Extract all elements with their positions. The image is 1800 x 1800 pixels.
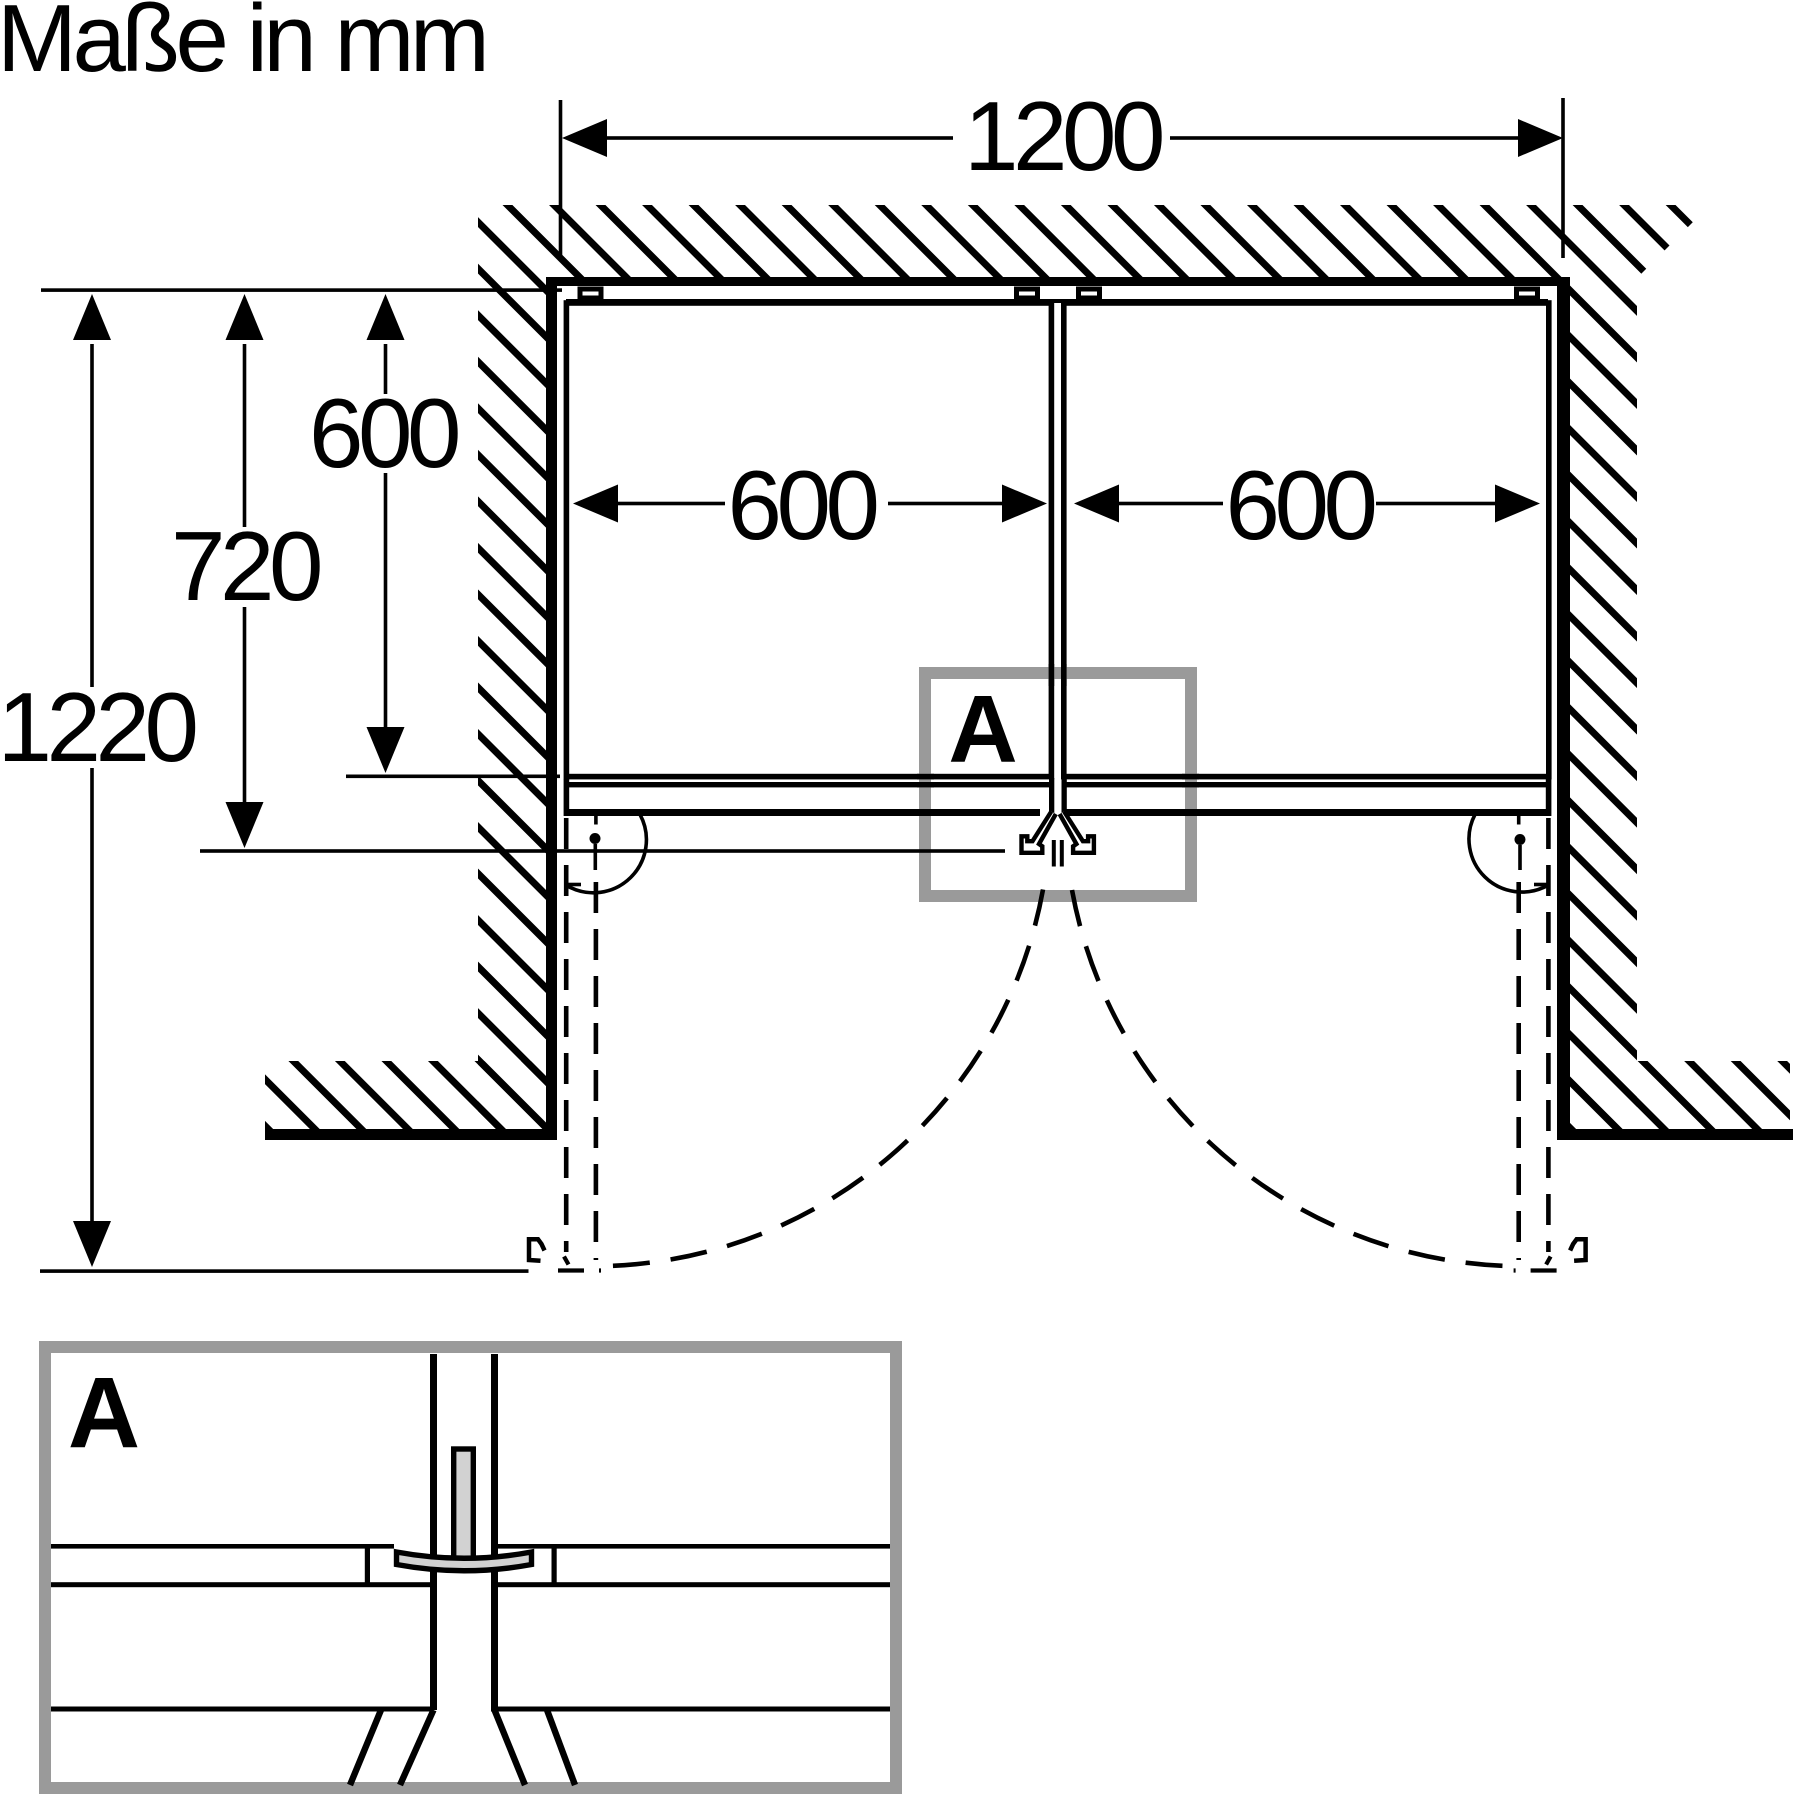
right open door face dashed bbox=[1546, 818, 1551, 1252]
detail body bottom line right bbox=[491, 1707, 890, 1712]
dim 600 left arrowhead left bbox=[573, 485, 618, 523]
vertical dim 1220 line lower bbox=[90, 768, 94, 1222]
detail funnel left inner bbox=[350, 1710, 381, 1785]
overlay base line through frame right band bbox=[1182, 809, 1199, 816]
right door bottom bend bbox=[1546, 1257, 1551, 1265]
left floor line bbox=[265, 1129, 557, 1140]
overlay front edge through frame right band bbox=[1182, 782, 1199, 787]
dim 1200 left arrowhead bbox=[562, 119, 607, 157]
vertical dim 720 down arrow bbox=[226, 802, 264, 848]
left hinge dash above dot bbox=[594, 816, 598, 825]
center short dash right bbox=[1060, 840, 1064, 867]
detail hinge stem bbox=[454, 1449, 474, 1561]
vertical dim 600 line lower bbox=[384, 473, 388, 729]
vertical dim 720 line upper bbox=[243, 344, 247, 527]
detail body bottom line left bbox=[51, 1707, 432, 1712]
wall hatching right band bbox=[1570, 278, 1637, 1130]
right hinge dot tick bbox=[1518, 845, 1522, 870]
svg-text:600: 600 bbox=[727, 450, 876, 560]
niche ceiling line bbox=[546, 277, 1570, 286]
right floor line bbox=[1557, 1129, 1793, 1140]
detail hinge flange bbox=[397, 1552, 532, 1571]
overlay front edge through frame left band bbox=[917, 782, 934, 787]
detail upper slab top line right bbox=[497, 1544, 890, 1549]
fridge front edge line left bbox=[566, 782, 1049, 787]
right door bottom dashes bbox=[1514, 1268, 1557, 1272]
base front line right bbox=[1066, 809, 1546, 816]
detail upper slab top line left bbox=[51, 1544, 394, 1549]
detail lower line left bbox=[51, 1582, 432, 1587]
detail funnel left outer bbox=[400, 1710, 434, 1785]
gray callout box A (main view) bbox=[925, 673, 1191, 896]
svg-text:1200: 1200 bbox=[964, 81, 1162, 191]
niche right wall line bbox=[1557, 277, 1570, 1140]
left arc end tick bbox=[566, 883, 581, 887]
wall hatching top band bbox=[478, 205, 1710, 278]
overlay door bottom through frame left band bbox=[917, 774, 934, 780]
left door bottom bend bbox=[564, 1257, 569, 1265]
vertical dim 600 line upper bbox=[384, 344, 388, 394]
detail funnel right inner bbox=[547, 1710, 575, 1785]
svg-text:600: 600 bbox=[1225, 450, 1374, 560]
left open door outer dashed bbox=[594, 882, 599, 1260]
svg-text:1220: 1220 bbox=[0, 672, 196, 782]
vertical dim 720 line lower bbox=[243, 607, 247, 804]
hinge tab 3 bbox=[1079, 289, 1100, 298]
svg-text:720: 720 bbox=[171, 511, 320, 621]
right hinge dot bbox=[1515, 834, 1526, 845]
dim 600 right arrowhead right bbox=[1495, 485, 1540, 523]
detail mullion left line bbox=[430, 1354, 437, 1710]
detail funnel right outer bbox=[495, 1710, 526, 1785]
dim 600 left arrowhead right bbox=[1002, 485, 1047, 523]
dim 1200 line left segment bbox=[604, 136, 953, 140]
fridge front edge line right bbox=[1064, 782, 1548, 787]
wall hatching left band bbox=[478, 278, 546, 1130]
detail right door end bbox=[552, 1546, 557, 1586]
vertical dim 1220 line upper bbox=[90, 344, 94, 687]
right hinge dash above dot bbox=[1517, 816, 1521, 825]
dim 1200 line right segment bbox=[1170, 136, 1521, 140]
600 mark line bbox=[346, 775, 560, 779]
right door swing dashed arc bbox=[1072, 890, 1507, 1266]
hinge tab 4 bbox=[1517, 289, 1538, 298]
detail view gray frame bbox=[45, 1347, 896, 1788]
overlay door bottom through frame right band bbox=[1182, 774, 1199, 780]
detail mullion right line bbox=[491, 1354, 498, 1710]
1220 mark line bbox=[40, 1269, 529, 1273]
wall hatching right foot bbox=[1570, 1061, 1790, 1130]
left open door face dashed bbox=[564, 818, 569, 1252]
niche left wall line bbox=[546, 277, 557, 1140]
dim 600 right line segments bbox=[1116, 502, 1223, 506]
hinge tab 2 bbox=[1017, 289, 1038, 298]
dim 1200 right extension line bbox=[1561, 98, 1565, 258]
dim 600 right arrowhead left bbox=[1074, 485, 1119, 523]
right open door outer dashed bbox=[1516, 882, 1521, 1260]
left swing arc small bbox=[568, 815, 647, 893]
center right door edge extension bbox=[1062, 778, 1067, 816]
left hinge dot bbox=[590, 833, 601, 844]
detail lower line right bbox=[491, 1582, 890, 1587]
vertical dim 600 up arrow bbox=[367, 294, 405, 340]
dim 1200 left extension line bbox=[559, 100, 563, 257]
right door handle open bbox=[1570, 1239, 1586, 1261]
right door outline bbox=[1064, 303, 1549, 777]
right edge connector to base bbox=[1546, 779, 1552, 816]
detail left door end bbox=[365, 1546, 370, 1586]
hinge tab 1 bbox=[580, 289, 601, 298]
overlay center door edges through frame top band bbox=[1049, 664, 1055, 686]
dim 1200 right arrowhead bbox=[1518, 119, 1563, 157]
fridge carcass top thin line bbox=[566, 299, 1548, 303]
left hinge dot tick bbox=[594, 844, 598, 870]
svg-text:A: A bbox=[68, 1357, 140, 1469]
svg-text:A: A bbox=[948, 676, 1017, 783]
dim 600 left line segments bbox=[615, 502, 725, 506]
left door swing dashed arc bbox=[608, 890, 1043, 1267]
vertical dim 1220 up arrow bbox=[73, 294, 111, 340]
right arc end tick bbox=[1534, 883, 1549, 887]
left door outline bbox=[566, 303, 1051, 777]
vertical dim 720 up arrow bbox=[226, 294, 264, 340]
center left door edge extension bbox=[1049, 778, 1054, 816]
720 mark line bbox=[200, 849, 1005, 853]
vertical dim 1220 down arrow bbox=[73, 1221, 111, 1267]
top reference thin line bbox=[41, 288, 562, 292]
right swing arc small bbox=[1469, 815, 1548, 893]
center hinge left boot bbox=[1022, 812, 1056, 853]
left door bottom dashes bbox=[558, 1268, 601, 1272]
vertical dim 600 down arrow bbox=[367, 727, 405, 773]
wall hatching left foot bbox=[265, 1061, 546, 1130]
left door handle open bbox=[529, 1239, 545, 1261]
left edge connector to base bbox=[564, 779, 570, 816]
overlay base line through frame left band bbox=[917, 809, 934, 816]
svg-text:Maße in mm: Maße in mm bbox=[0, 0, 485, 92]
center short dash left bbox=[1052, 840, 1056, 867]
svg-text:600: 600 bbox=[309, 378, 458, 488]
base front line left bbox=[566, 809, 1040, 816]
center hinge right boot bbox=[1060, 812, 1094, 853]
